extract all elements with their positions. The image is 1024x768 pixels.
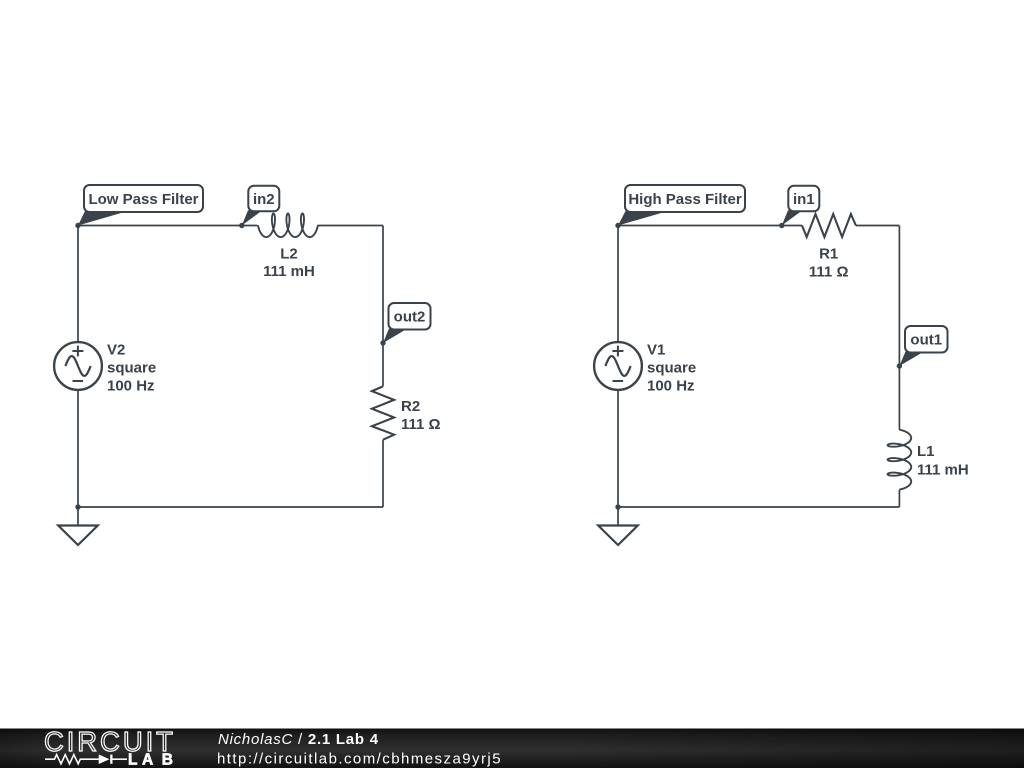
svg-text:L2: L2 [280, 245, 298, 262]
svg-text:square: square [647, 360, 696, 377]
svg-text:111 mH: 111 mH [263, 263, 315, 280]
svg-text:in2: in2 [253, 191, 275, 208]
svg-text:R1: R1 [819, 245, 838, 262]
svg-text:V1: V1 [647, 342, 665, 359]
svg-text:out1: out1 [910, 332, 942, 349]
svg-text:R2: R2 [401, 398, 420, 415]
svg-text:V2: V2 [107, 342, 125, 359]
svg-text:B: B [162, 751, 173, 768]
svg-text:100 Hz: 100 Hz [107, 378, 155, 395]
svg-text:http://circuitlab.com/cbhmesza: http://circuitlab.com/cbhmesza9yrj5 [217, 751, 502, 768]
svg-text:in1: in1 [793, 191, 815, 208]
svg-text:L1: L1 [917, 443, 935, 460]
svg-text:CIRCUIT: CIRCUIT [44, 726, 176, 757]
svg-text:L: L [128, 751, 137, 768]
svg-text:High Pass Filter: High Pass Filter [628, 191, 742, 208]
svg-text:out2: out2 [394, 309, 426, 326]
svg-text:Low Pass Filter: Low Pass Filter [88, 191, 198, 208]
svg-text:100 Hz: 100 Hz [647, 378, 695, 395]
svg-text:111 Ω: 111 Ω [809, 263, 849, 280]
svg-text:A: A [142, 751, 153, 768]
svg-text:111 mH: 111 mH [917, 462, 969, 479]
svg-text:NicholasC / 2.1 Lab 4: NicholasC / 2.1 Lab 4 [218, 731, 379, 748]
svg-text:square: square [107, 360, 156, 377]
svg-text:111 Ω: 111 Ω [401, 416, 441, 433]
